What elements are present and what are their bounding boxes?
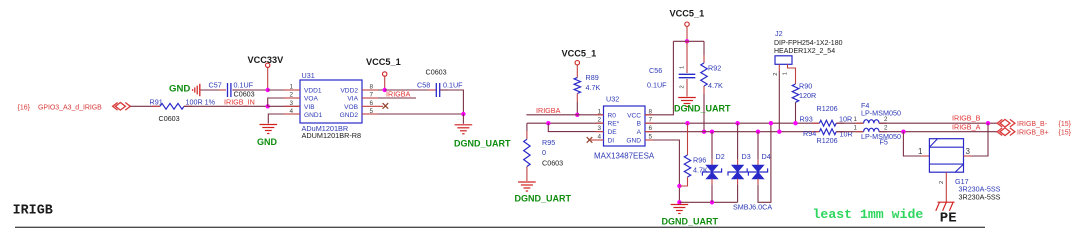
wire C56 top lead <box>686 41 688 73</box>
wire D3 bottom lead <box>737 179 739 185</box>
wire C56 bottom lead <box>686 79 688 97</box>
svg-text:D4: D4 <box>762 152 771 161</box>
node junction VDD1 <box>266 88 270 92</box>
svg-text:RE*: RE* <box>608 121 620 128</box>
wire B line (U32 pin7) <box>645 122 819 124</box>
svg-text:DGND_UART: DGND_UART <box>515 194 572 204</box>
wire port to R91 <box>130 105 160 107</box>
wire D4 bottom lead to B-drop <box>757 179 759 185</box>
svg-text:R89: R89 <box>586 73 599 82</box>
node junction RO/IRIGBA <box>575 113 579 117</box>
fuse F5 LP-MSM050 <box>856 131 864 133</box>
ground PE (chassis) <box>938 201 955 203</box>
svg-text:DGND_UART: DGND_UART <box>662 217 719 227</box>
svg-text:GND1: GND1 <box>304 112 323 119</box>
node junction D3-B <box>735 121 739 125</box>
svg-text:D3: D3 <box>742 152 751 161</box>
node junction VCC loop <box>685 39 689 43</box>
svg-text:0.1UF: 0.1UF <box>234 81 254 90</box>
pin stubs U31 right <box>362 89 378 91</box>
wire U31 pin6 VOB stub <box>362 105 383 107</box>
svg-text:U32: U32 <box>606 95 619 104</box>
svg-text:least 1mm wide: least 1mm wide <box>813 207 924 222</box>
power VCC5_1 (C56) <box>685 22 689 26</box>
svg-text:4.7K: 4.7K <box>708 81 723 90</box>
resistor R95 <box>524 139 530 166</box>
wire A line (U32 pin6) <box>645 131 819 133</box>
svg-text:C58: C58 <box>417 81 430 90</box>
wire R93 to F4 <box>836 122 863 124</box>
wire U31 pin8 VDD2 <box>362 89 385 91</box>
svg-text:IRIGB_B: IRIGB_B <box>952 114 981 123</box>
svg-text:120R: 120R <box>799 91 816 100</box>
svg-text:VIA: VIA <box>347 96 358 103</box>
svg-text:U31: U31 <box>302 71 315 80</box>
svg-text:0.1UF: 0.1UF <box>443 81 463 90</box>
svg-text:R96: R96 <box>693 155 706 164</box>
svg-text:DGND_UART: DGND_UART <box>674 104 731 114</box>
svg-text:C0603: C0603 <box>159 114 180 123</box>
svg-text:IRIGB: IRIGB <box>13 203 53 218</box>
svg-text:VOA: VOA <box>304 96 319 103</box>
wire R95 to ground <box>526 167 528 182</box>
svg-text:MAX13487EESA: MAX13487EESA <box>594 152 655 161</box>
svg-text:10R: 10R <box>840 129 853 138</box>
svg-text:VIB: VIB <box>304 104 315 111</box>
op-amp U32 MAX13487EESA body <box>604 106 646 146</box>
svg-text:VCC5_1: VCC5_1 <box>366 57 401 67</box>
port IRIGB_B- <box>997 119 1002 127</box>
wire U32 pin2 RE* <box>527 122 604 124</box>
wire ground rail (diodes) <box>679 201 737 203</box>
svg-text:IRIGB_B-: IRIGB_B- <box>1017 121 1048 128</box>
wire R92 to A line <box>703 86 705 94</box>
svg-text:10R: 10R <box>839 115 852 124</box>
wire U31 pin7 IRIGBA stub <box>362 97 416 99</box>
node junction ground rail left <box>677 200 681 204</box>
wire U32 pin4 DI stub <box>591 139 604 141</box>
node junction B-drop <box>769 121 773 125</box>
capacitor C56 <box>679 73 696 75</box>
svg-text:C0603: C0603 <box>234 90 255 99</box>
node junction R90-B <box>793 121 797 125</box>
wire G17 pin2 to PE <box>945 172 947 202</box>
svg-text:A: A <box>637 129 642 136</box>
resistor R94 <box>811 131 819 133</box>
wire VCC5_1 to R89 <box>576 65 578 78</box>
port GPIO3_A3_d_IRIGB (off-page connector) <box>113 103 118 111</box>
svg-text:GND2: GND2 <box>340 112 359 119</box>
svg-text:GND: GND <box>169 83 190 94</box>
diode D4 (TVS) <box>752 165 764 172</box>
wire to U31 pin3 VIB <box>268 105 300 107</box>
node junction VDD2 <box>383 88 387 92</box>
svg-text:R91: R91 <box>150 97 163 106</box>
svg-text:3R230A-5SS: 3R230A-5SS <box>959 192 1001 201</box>
wire U32 pin5 GND to ground rail <box>645 140 679 202</box>
svg-text:1: 1 <box>854 116 858 123</box>
node junction D2 bottom <box>710 200 714 204</box>
capacitor C57 <box>219 89 226 91</box>
svg-text:IRIGB_IN: IRIGB_IN <box>224 98 255 107</box>
svg-text:VCC33V: VCC33V <box>248 55 285 65</box>
wire jog to U31 pin2 VOA <box>268 98 300 106</box>
wire G17 pin3 to B line <box>964 155 972 157</box>
svg-text:{16}: {16} <box>18 104 31 111</box>
svg-text:R92: R92 <box>708 64 721 73</box>
svg-text:2: 2 <box>680 85 686 88</box>
resistor R91 <box>152 105 160 107</box>
ground DGND_UART (C58) <box>455 124 473 126</box>
svg-text:VCC5_1: VCC5_1 <box>670 8 705 18</box>
node junction R96-B <box>685 121 689 125</box>
svg-text:F5: F5 <box>880 137 888 146</box>
node junction D2-A <box>710 130 714 134</box>
wire A to G17 pin1 <box>903 132 921 156</box>
svg-text:R95: R95 <box>542 138 555 147</box>
wire R96 top lead <box>687 123 689 155</box>
resistor R89 <box>574 78 580 94</box>
svg-text:DE: DE <box>608 129 618 136</box>
wire VCC loop left / to U32 pin8 <box>645 41 673 115</box>
svg-text:SMBJ6.0CA: SMBJ6.0CA <box>733 203 772 212</box>
fuse F4 LP-MSM050 <box>856 122 864 124</box>
svg-text:HEADER1X2_2_54: HEADER1X2_2_54 <box>774 48 835 55</box>
wire U32 pin3 DE jog <box>548 123 603 131</box>
svg-text:LP-MSM050: LP-MSM050 <box>861 109 901 118</box>
node junction D4-A <box>756 130 760 134</box>
svg-text:IRIGB_B+: IRIGB_B+ <box>1017 129 1049 136</box>
wire RE/DE down to R95 <box>526 123 528 131</box>
ground DGND_UART (rail) <box>671 204 689 206</box>
svg-text:ADUM1201BR-R8: ADUM1201BR-R8 <box>302 131 362 140</box>
svg-text:{15}: {15} <box>1059 121 1072 128</box>
svg-text:GND: GND <box>626 138 641 145</box>
diode D3 (TVS) <box>732 165 744 172</box>
svg-text:R93: R93 <box>800 115 813 124</box>
svg-text:1: 1 <box>854 124 858 131</box>
wire D2 bottom lead <box>711 179 713 185</box>
svg-text:R90: R90 <box>799 81 812 90</box>
wire R96 bottom jog <box>679 177 687 186</box>
node junction G17 pin1 <box>901 130 905 134</box>
power VCC5_1 (U31) <box>383 72 387 76</box>
wire down to DGND_UART (C58) <box>462 114 464 124</box>
surge arrester G17 body <box>929 139 963 173</box>
wire J2 pin1 jog to R90 <box>788 64 796 84</box>
svg-text:{15}: {15} <box>1059 129 1072 136</box>
svg-text:0.1UF: 0.1UF <box>647 81 667 90</box>
svg-text:2: 2 <box>939 181 945 184</box>
wire D2 top lead <box>711 132 713 160</box>
svg-text:C57: C57 <box>209 81 222 90</box>
wire U31 pin4 GND1 to ground <box>268 114 300 124</box>
svg-text:2: 2 <box>773 73 779 76</box>
wire R89 to RO node <box>576 94 578 103</box>
svg-text:4.7K: 4.7K <box>693 165 708 174</box>
wire C57 to VCC node <box>232 89 268 91</box>
svg-text:1: 1 <box>783 72 789 75</box>
wire D3 top lead <box>737 123 739 159</box>
svg-text:IRIGB_A: IRIGB_A <box>952 122 981 131</box>
op-amp U31 ADuM1201BR body <box>300 80 362 123</box>
svg-text:C56: C56 <box>649 66 662 75</box>
svg-text:R1206: R1206 <box>817 104 838 113</box>
wire gnd to C57 <box>201 89 227 91</box>
wire U31 pin5 GND2 <box>362 113 463 115</box>
svg-text:3: 3 <box>966 147 971 156</box>
svg-text:R94: R94 <box>803 129 816 138</box>
pin stubs U31 left <box>284 89 300 91</box>
svg-text:C0603: C0603 <box>426 68 447 77</box>
node junction VIB input <box>266 104 270 108</box>
wire C58 to ground branch <box>440 90 464 114</box>
wire VCC33V stem <box>267 68 269 91</box>
power VCC33V <box>266 63 270 67</box>
svg-text:VOB: VOB <box>344 104 359 111</box>
svg-text:R1206: R1206 <box>817 136 838 145</box>
wire F4 to port IRIGB_B- <box>879 122 997 124</box>
node junction R92-A <box>702 130 706 134</box>
svg-text:B: B <box>637 121 642 128</box>
svg-text:R0: R0 <box>608 112 617 119</box>
ground GND (sideways) at C57 <box>199 84 201 96</box>
wire R91 to U31 node <box>184 105 268 107</box>
svg-text:DIP-FPH254-1X2-180: DIP-FPH254-1X2-180 <box>774 40 843 47</box>
wire VCC5_1 stem (U31) <box>384 76 386 90</box>
svg-text:0: 0 <box>542 148 546 157</box>
power VCC5_1 (R89) <box>575 61 579 65</box>
svg-text:D2: D2 <box>716 152 725 161</box>
wire F5 to port IRIGB_B+ <box>879 131 997 133</box>
svg-text:IRIGBA: IRIGBA <box>386 89 411 98</box>
diode D2 (TVS) <box>706 165 718 172</box>
resistor R90 <box>792 84 798 102</box>
svg-text:PE: PE <box>940 211 957 227</box>
svg-text:1: 1 <box>680 66 686 69</box>
wire D4 top lead <box>757 132 759 160</box>
wire J2 pin2 to A line <box>778 64 780 71</box>
pin stubs U32 left <box>596 114 604 116</box>
wire R92 top lead <box>703 41 705 55</box>
wire R90 to B line <box>795 102 797 123</box>
svg-text:4.7K: 4.7K <box>586 83 601 92</box>
ground GND under U31 <box>260 124 278 126</box>
port IRIGB_B+ <box>997 128 1002 136</box>
resistor R92 <box>701 63 707 86</box>
svg-text:1: 1 <box>918 147 923 156</box>
wire VDD1 to U31 pin1 <box>268 89 300 91</box>
svg-text:GPIO3_A3_d_IRIGB: GPIO3_A3_d_IRIGB <box>38 104 102 111</box>
svg-text:2: 2 <box>884 124 888 131</box>
node junction R96 bottom <box>677 184 681 188</box>
svg-text:VCC5_1: VCC5_1 <box>562 48 597 58</box>
resistor R93 <box>811 122 819 124</box>
svg-text:VDD1: VDD1 <box>304 88 322 95</box>
no-connect X on U31 pin6 <box>383 103 389 109</box>
ground DGND_UART (C56) <box>678 97 696 99</box>
connector J2 body <box>775 56 792 65</box>
svg-text:100R 1%: 100R 1% <box>186 97 216 106</box>
svg-text:J2: J2 <box>775 29 783 38</box>
node junction J2-A <box>777 130 781 134</box>
svg-text:IRIGBA: IRIGBA <box>536 106 561 115</box>
wire VDD2 to C58 <box>385 89 437 91</box>
svg-text:VDD2: VDD2 <box>340 88 358 95</box>
wire IRIGBA to U32 pin1 <box>526 114 603 116</box>
svg-text:C0603: C0603 <box>542 159 563 168</box>
node junction GND2 <box>461 112 465 116</box>
svg-text:GND: GND <box>257 137 278 147</box>
wire R94 to F5 <box>836 131 863 133</box>
node junction RE/DE <box>546 121 550 125</box>
wire VCC loop top <box>673 40 704 42</box>
pin stubs U32 right <box>645 114 653 116</box>
resistor R96 <box>684 155 690 177</box>
ground DGND_UART (R95) <box>518 181 536 183</box>
svg-text:DGND_UART: DGND_UART <box>454 138 511 148</box>
no-connect X on U32 pin4 <box>587 137 593 143</box>
node junction G17 pin3 <box>986 121 990 125</box>
capacitor C58 <box>428 89 436 91</box>
sheet bottom border line <box>15 226 985 228</box>
svg-text:VCC: VCC <box>627 112 641 119</box>
svg-text:DI: DI <box>608 138 615 145</box>
wire VCC5_1 stem (C56) <box>686 26 688 41</box>
